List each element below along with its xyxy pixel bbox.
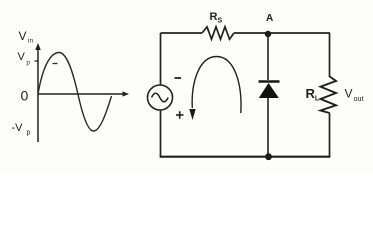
wire top-left segment <box>161 32 203 34</box>
svg-text:RS: RS <box>210 11 223 25</box>
resistor RL <box>321 77 337 114</box>
bottom junction dot <box>265 153 272 160</box>
input sine wave Vin <box>38 53 112 132</box>
waveform vertical axis Vin <box>35 43 41 142</box>
Vp level tick on axis <box>35 61 58 64</box>
svg-text:A: A <box>266 13 273 24</box>
svg-text:RL: RL <box>306 86 320 103</box>
svg-text:Vp: Vp <box>18 51 31 67</box>
svg-text:0: 0 <box>21 88 29 104</box>
source plus polarity <box>176 111 184 119</box>
wire bottom <box>160 156 331 158</box>
resistor RS <box>202 27 234 39</box>
wire diode to bottom node <box>267 98 269 157</box>
wire node A to diode <box>267 34 269 80</box>
wire right upper <box>329 33 331 77</box>
diode D1 <box>259 83 279 98</box>
loop current arrow <box>189 57 241 121</box>
svg-text:Vout: Vout <box>345 87 364 104</box>
wire top-right segment <box>268 32 330 34</box>
wire left upper <box>160 33 162 85</box>
diode D1 cathode bar <box>259 80 280 83</box>
node A junction dot <box>265 31 271 37</box>
source minus polarity <box>175 77 182 79</box>
ac source VS <box>148 85 173 110</box>
svg-text:Vin: Vin <box>19 29 34 45</box>
wire left lower <box>160 110 162 157</box>
waveform horizontal axis (time) <box>38 91 129 96</box>
svg-text:-Vp: -Vp <box>12 122 31 137</box>
wire top-mid segment <box>234 32 268 34</box>
wire right lower <box>329 113 331 157</box>
